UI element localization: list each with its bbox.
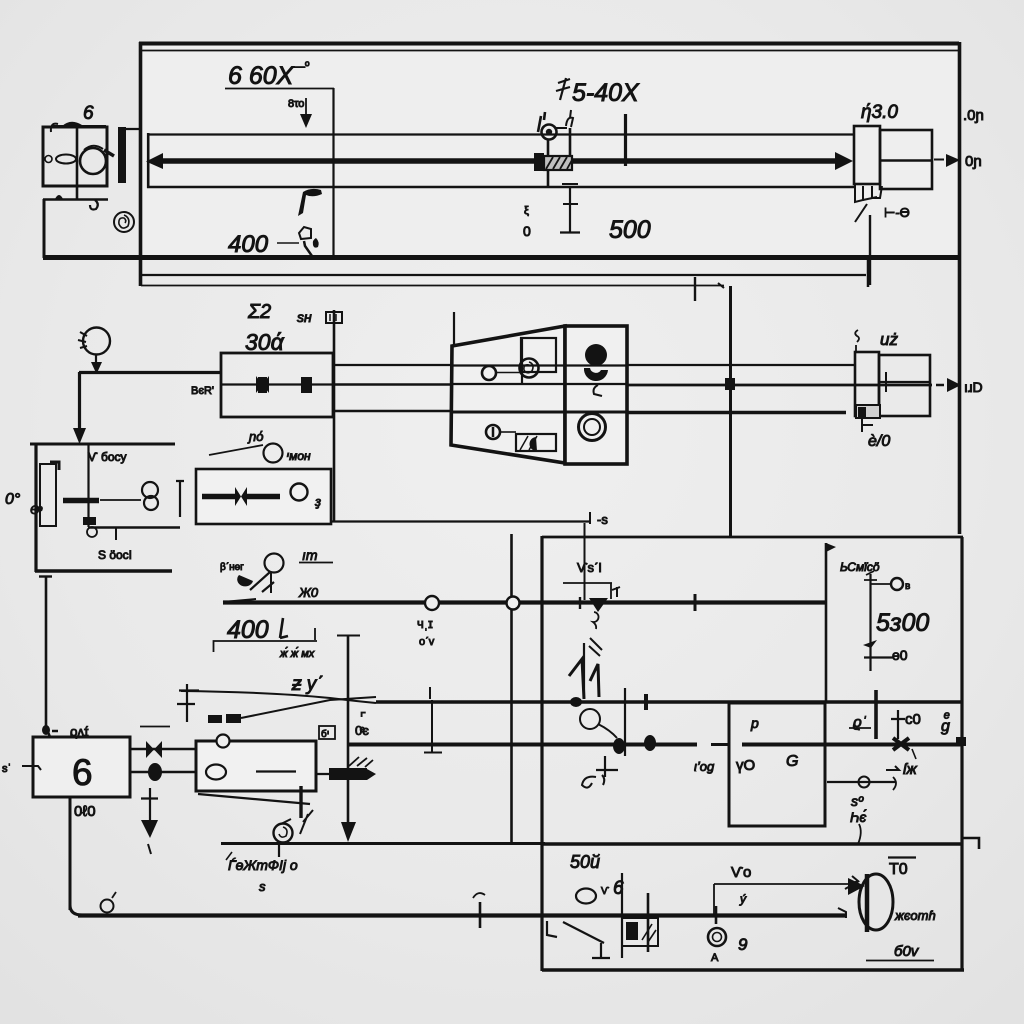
big box right edge	[960, 537, 963, 971]
trapezoid body	[451, 326, 565, 463]
svg-text:с0: с0	[905, 711, 921, 728]
frame right edge	[958, 42, 962, 534]
right body rect	[565, 326, 627, 464]
pentagon droplet	[313, 238, 319, 248]
vertical from box bottom	[69, 797, 72, 910]
q tail glyph	[593, 612, 599, 629]
svg-text:оˊv: оˊv	[419, 636, 435, 648]
svg-text:у́: у́	[739, 892, 747, 906]
ring inner	[713, 933, 722, 942]
fork upper line	[181, 691, 376, 703]
motor box top cap	[52, 125, 106, 127]
SD circle	[264, 444, 283, 463]
inner ellipse	[206, 765, 226, 780]
ring node A	[708, 928, 726, 946]
dim ring	[891, 578, 903, 590]
svg-text:Ж0: Ж0	[298, 585, 319, 600]
pulley ring	[542, 125, 557, 140]
rails through body 2	[452, 383, 627, 385]
anchor vertical	[604, 756, 606, 777]
O ellipse	[576, 889, 596, 904]
tick below circle C	[278, 843, 280, 857]
foot hatch	[863, 197, 877, 200]
arrow down head	[141, 820, 158, 838]
tick x695	[694, 594, 697, 611]
inner box	[729, 703, 825, 826]
spiral	[114, 212, 134, 232]
lamp rays	[78, 332, 87, 348]
machine bed interior	[142, 46, 958, 256]
anchor tick	[596, 769, 618, 771]
dim bottom arrow	[863, 640, 877, 648]
spiral inner	[119, 215, 129, 228]
svg-text:—º: —º	[293, 59, 310, 73]
svg-text:ѴѕˊI: ѴѕˊI	[577, 560, 602, 575]
shaft arrowhead right	[835, 152, 853, 170]
8 circle bottom	[144, 496, 158, 510]
cross glyph	[891, 710, 905, 739]
valve bowtie 1 solid	[258, 377, 267, 393]
svg-text:жєотɦ: жєотɦ	[894, 908, 936, 923]
pulley left tick	[538, 112, 545, 132]
dimension 600X underline	[225, 88, 334, 90]
wire y745 right seg	[742, 743, 963, 747]
wire y884 left drop	[713, 884, 715, 916]
svg-text:400: 400	[227, 616, 269, 644]
small ring b	[87, 527, 97, 537]
right spigot rect	[854, 126, 880, 184]
vertical x348	[347, 636, 350, 826]
upper bowtie	[146, 741, 162, 758]
down arrowhead	[300, 114, 312, 128]
x348 top cap	[337, 635, 360, 637]
vertical tick x625	[624, 114, 627, 166]
svg-text:0ℓ0: 0ℓ0	[74, 803, 96, 820]
base left edge	[43, 199, 46, 258]
svg-text:sн: sн	[297, 309, 312, 325]
X node right	[893, 738, 909, 750]
diagonal stroke at foot	[855, 204, 867, 222]
bottom dark blob	[529, 437, 537, 451]
6Z box mid	[879, 381, 930, 383]
svg-text:ιʼоɡ: ιʼоɡ	[694, 759, 715, 774]
node blob x576	[570, 697, 582, 707]
dash before arrow	[936, 384, 944, 387]
node dot x649	[644, 694, 648, 710]
bottom hatched box	[516, 434, 556, 451]
hatched box on shaft	[544, 156, 572, 170]
anchor apostrophe	[602, 775, 604, 785]
motor circle top arc	[84, 146, 103, 150]
svg-text:ө0: ө0	[892, 647, 908, 663]
inner rail top	[147, 133, 854, 135]
arrow down x150 tick	[141, 797, 158, 799]
Q underline	[849, 727, 871, 729]
svg-text:400: 400	[228, 231, 269, 258]
wire left taper	[223, 599, 256, 602]
body double ring	[579, 414, 606, 441]
box thick dash 2	[247, 494, 280, 500]
svg-text:үО: үО	[736, 757, 755, 774]
bottom hatch	[520, 436, 537, 450]
svg-text:ξ: ξ	[524, 205, 529, 217]
60v underline	[866, 960, 934, 962]
pulley stem right	[569, 128, 572, 170]
fork lower line	[241, 697, 376, 718]
right square node	[956, 737, 966, 746]
svg-text:⊢-Ө: ⊢-Ө	[884, 205, 910, 220]
vertical x826 with flag	[825, 543, 828, 703]
tick x480	[479, 902, 482, 928]
vertical wire x88	[87, 444, 89, 527]
inner rect	[521, 338, 556, 372]
circle C	[274, 824, 293, 843]
wire y745 dash	[711, 743, 729, 746]
dashed arrow	[934, 159, 944, 161]
stem right top hook	[566, 110, 573, 127]
hook strokes	[300, 810, 313, 834]
stem link dark tick	[555, 127, 567, 129]
6Z spigot	[855, 352, 879, 416]
svg-text:50й: 50й	[570, 852, 600, 872]
wire y782	[827, 781, 896, 783]
coupling top link	[122, 128, 140, 130]
svg-text:ж́ ж́ мx: ж́ ж́ мx	[279, 647, 315, 660]
y884 right arrow	[845, 876, 859, 889]
body filled circle	[585, 344, 607, 366]
connect line	[496, 372, 520, 374]
screw dark bar	[329, 768, 367, 780]
circle C inner	[279, 827, 287, 837]
bottom connect line	[500, 431, 516, 433]
valve bowtie 1	[256, 376, 269, 393]
motor lens	[56, 155, 76, 164]
wire y702 main	[376, 700, 963, 704]
squiggle bar	[583, 643, 585, 699]
left motor box	[43, 127, 107, 186]
svg-text:BєR': BєR'	[191, 385, 214, 397]
svg-text:5-40X: 5-40X	[572, 79, 640, 107]
D left arrow	[848, 878, 865, 895]
400 bracket right tick	[314, 628, 316, 640]
in underline	[299, 562, 333, 564]
foot L tick	[861, 418, 873, 432]
dark node left of hatched box	[534, 153, 544, 171]
motor box divider	[76, 127, 79, 199]
svg-text:в: в	[905, 581, 910, 592]
svg-text:6: 6	[72, 752, 93, 793]
svg-text:ϱʌɪ́: ϱʌɪ́	[70, 724, 89, 739]
inner tall rect	[40, 464, 56, 526]
end tick	[589, 512, 591, 524]
wire 6box upper	[130, 748, 196, 751]
svg-text:Т0: Т0	[889, 861, 908, 878]
svg-text:бי: бי	[321, 728, 329, 740]
wire y745 left seg	[347, 743, 697, 747]
svg-text:иż: иż	[880, 330, 898, 349]
svg-text:ıɹD: ıɹD	[964, 379, 983, 395]
wire lamp to valve box	[79, 371, 222, 374]
inner rail left edge	[147, 133, 150, 188]
six box	[33, 737, 130, 797]
box thick dash 1	[202, 494, 235, 500]
dash to 8	[100, 499, 141, 501]
motor big circle	[80, 148, 106, 174]
wire box bottom extension	[332, 520, 590, 522]
small s above spigot	[855, 330, 859, 352]
rail right 2	[627, 384, 932, 387]
step connector right of bottom band	[867, 258, 870, 287]
svg-text:9: 9	[738, 935, 748, 954]
vertical dimension line x333	[332, 88, 334, 258]
svg-text:0ͤє: 0ͤє	[355, 723, 369, 738]
big box top edge	[542, 536, 963, 539]
vertical through node	[624, 688, 626, 756]
8 circle top	[142, 482, 158, 498]
wire down from lamp wire	[78, 372, 81, 432]
valve box	[221, 353, 333, 417]
x46 bottom dot	[42, 725, 50, 735]
wire y918 right end	[838, 908, 846, 918]
corner bend	[70, 905, 82, 915]
svg-text:0°: 0°	[5, 491, 21, 508]
fork lower bowtie	[208, 714, 241, 723]
big box left edge	[540, 536, 543, 971]
strut T foot	[592, 943, 610, 958]
hatched box hatches	[546, 157, 572, 169]
tall rect corner tick	[50, 462, 59, 470]
box glyph bars	[330, 314, 336, 321]
svg-text:Ѕ ӧосI: Ѕ ӧосI	[98, 548, 132, 562]
end curl	[893, 777, 896, 790]
small box glyph	[326, 312, 342, 323]
cluster hatches	[642, 924, 656, 942]
inner vertical	[521, 338, 523, 384]
frame bottom thick line	[43, 255, 959, 260]
spiral pulley	[520, 359, 539, 378]
svg-text:ƶ уˊ: ƶ уˊ	[291, 674, 323, 695]
vertical x584	[584, 523, 586, 600]
valve center line	[222, 383, 332, 385]
anchor curl	[582, 777, 596, 788]
thin wire y884	[714, 883, 852, 885]
down arrow at x306	[305, 98, 307, 117]
svg-text:יмон: יмон	[286, 449, 311, 463]
vertical wire x511	[510, 534, 513, 843]
frame bottom third line	[141, 285, 724, 287]
svg-text:Ѵ: Ѵ	[601, 886, 609, 897]
svg-text:6: 6	[83, 103, 94, 124]
ring node o	[101, 900, 114, 913]
dashed arrowhead	[946, 154, 960, 167]
tick x695 below frame	[694, 277, 696, 301]
frame left edge	[139, 42, 143, 286]
lower stem bottom T	[560, 231, 580, 233]
c hook	[90, 200, 98, 210]
bottom small circle	[486, 425, 500, 439]
TO overline	[888, 856, 916, 858]
trapezoid top stub	[453, 312, 455, 346]
400 tick	[277, 242, 299, 244]
dash arrow	[886, 766, 899, 770]
cross thick dash	[63, 498, 99, 504]
motor right dark tick	[104, 150, 114, 156]
big box bottom edge	[542, 968, 964, 972]
base top bumps	[55, 195, 63, 199]
dark blob under	[237, 575, 253, 586]
diagonal under box	[198, 794, 310, 804]
svg-text:30ά: 30ά	[245, 329, 285, 355]
pulley stem left	[547, 140, 550, 187]
L tick in box	[547, 921, 557, 937]
dim top tick	[864, 571, 877, 580]
motor top hook	[51, 124, 58, 132]
divider wire y843	[541, 842, 963, 846]
tick left of triangle	[579, 597, 581, 609]
garbled tick	[226, 852, 232, 860]
right box rect	[880, 130, 932, 189]
wire y603	[223, 600, 826, 604]
ring node 2	[507, 597, 520, 610]
svg-text:ή3.0: ή3.0	[861, 102, 898, 123]
small tick below	[148, 844, 151, 854]
small circle left	[482, 366, 496, 380]
stem T foot	[562, 183, 578, 185]
ring 20 circle	[265, 554, 284, 573]
svg-text:Ѵо: Ѵо	[731, 864, 751, 881]
svg-text:ıт: ıт	[302, 547, 318, 563]
tick x480 curl	[473, 893, 485, 898]
wire y527	[88, 526, 180, 529]
dim bottom horizontal	[864, 656, 893, 658]
box circle	[291, 484, 308, 501]
middle valve box	[196, 469, 331, 524]
svg-text:0ɲ: 0ɲ	[965, 153, 982, 170]
frame top border outer	[139, 42, 959, 46]
svg-text:чˌɪ: чˌɪ	[417, 616, 433, 631]
svg-text:A: A	[711, 952, 719, 964]
svg-text:G: G	[786, 753, 798, 770]
rail3 valve to trapezoid	[334, 410, 454, 412]
shaft thick arrow	[155, 158, 836, 164]
ring node y782	[859, 777, 870, 788]
ring node 1	[425, 596, 439, 610]
J8 diagonal	[912, 749, 916, 759]
body glyph 5	[594, 385, 603, 396]
valve bowtie 2	[301, 377, 312, 393]
thick tick x301	[299, 786, 302, 818]
left margin dash	[22, 766, 41, 770]
N zigzag	[569, 659, 599, 699]
squiggle down	[858, 824, 861, 844]
lamp circle	[83, 328, 110, 355]
inner dash	[256, 770, 296, 772]
svg-text:Σ2: Σ2	[247, 301, 271, 323]
0 box left edge	[34, 444, 37, 572]
svg-text:6 60X: 6 60X	[228, 62, 295, 90]
inner rail bottom	[147, 186, 854, 189]
bottom circle bar	[492, 427, 495, 437]
cluster box	[622, 918, 658, 946]
svg-text:500: 500	[609, 216, 651, 244]
right arrow head	[947, 378, 961, 392]
divider right step	[962, 838, 979, 849]
vertical wire x334	[333, 310, 336, 521]
arrow down shaft	[149, 788, 151, 820]
svg-text:Һє́: Һє́	[850, 809, 866, 825]
cluster vertical	[647, 893, 650, 952]
circle tail	[598, 724, 617, 738]
fork upper cap	[177, 684, 199, 722]
lower oval node	[148, 763, 162, 781]
svg-text:-ѕ: -ѕ	[597, 512, 608, 527]
rails through body 3	[451, 411, 627, 414]
svg-text:ҙ: ҙ	[314, 494, 321, 509]
middle box row4	[196, 741, 316, 791]
svg-text:8το: 8το	[288, 98, 304, 110]
spiral pulley inner	[524, 362, 533, 373]
diagonal strokes	[250, 572, 274, 592]
right box mid line	[880, 159, 932, 161]
vertical wire x46	[45, 576, 48, 734]
rail right 3	[627, 411, 846, 414]
rail1 valve to trapezoid	[334, 364, 454, 366]
open circle with tail	[580, 709, 600, 729]
pentagon symbol	[299, 227, 311, 239]
SD pointer line	[209, 445, 263, 455]
svg-text:р: р	[750, 715, 759, 731]
svg-text:ѕº: ѕº	[851, 793, 864, 809]
motor top bumps	[62, 122, 82, 126]
bowtie overline	[140, 726, 170, 728]
gamma hook blob	[298, 189, 322, 216]
6Z inner tick	[885, 372, 887, 392]
lamp stem arrowhead	[91, 362, 102, 374]
frame top border inner	[139, 50, 959, 52]
rail right 1	[627, 364, 855, 366]
vertical x432 below	[424, 700, 442, 753]
wire top of 0 box	[30, 443, 175, 446]
down arrowhead	[73, 428, 86, 444]
flag top	[826, 543, 836, 552]
wire 6box lower	[130, 771, 196, 774]
wire y843 left part	[221, 842, 545, 845]
oval node 2	[644, 735, 656, 751]
box bowtie	[235, 487, 247, 506]
0 box bottom edge	[35, 569, 172, 573]
D bar	[865, 874, 870, 932]
oval node 1	[613, 738, 625, 754]
tick above ring	[715, 906, 718, 924]
vertical x622	[621, 873, 623, 958]
svg-text:ѕˈ: ѕˈ	[2, 763, 11, 775]
short vertical x876	[874, 690, 878, 739]
svg-text:0: 0	[523, 223, 531, 239]
400 bracket	[214, 641, 318, 652]
motor small circle	[45, 156, 52, 163]
node cross blob	[83, 517, 96, 525]
svg-text:.0ɲ: .0ɲ	[963, 107, 984, 124]
long vertical x730	[729, 286, 732, 537]
svg-text:б0v: б0v	[894, 943, 920, 960]
screw tip	[367, 769, 376, 780]
pulley center	[546, 129, 552, 135]
node ring on top	[217, 735, 230, 748]
lower base top edge	[43, 198, 108, 201]
foot dark bar	[858, 407, 866, 417]
hatches	[589, 638, 602, 656]
svg-text:Ѵ босу: Ѵ босу	[88, 450, 127, 464]
